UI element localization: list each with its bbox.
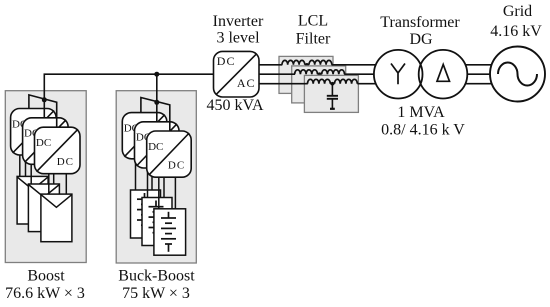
svg-text:3 level: 3 level xyxy=(216,30,260,47)
svg-text:4.16 kV: 4.16 kV xyxy=(490,23,542,40)
inductor L3a xyxy=(308,79,331,83)
svg-text:Boost: Boost xyxy=(27,268,65,285)
PV panel PV2 xyxy=(28,184,59,232)
PV panel PV1 xyxy=(17,176,48,224)
transformer primary winding (wye) xyxy=(374,50,423,99)
dc-dc boost converter 3 xyxy=(35,127,81,174)
dc-dc buck-boost converter 1 xyxy=(122,113,167,159)
wire buck converter1 to B1 xyxy=(136,157,153,190)
inverter U1 3-level xyxy=(214,51,260,97)
wire transformer to grid (3 lines) xyxy=(466,65,493,84)
buck fan wires to DC bus xyxy=(141,98,170,132)
svg-text:DC: DC xyxy=(148,141,163,153)
inductor L2a xyxy=(295,70,318,74)
wire phase B inverter to filter xyxy=(259,73,295,75)
dc-dc buck-boost converter 2 xyxy=(135,122,180,168)
boost fan wires to DC bus xyxy=(29,95,57,128)
grid source xyxy=(490,47,545,102)
inductor L1b xyxy=(309,60,332,64)
svg-text:DC: DC xyxy=(217,54,236,68)
node junction xyxy=(330,83,334,85)
LCL filter box 2 xyxy=(292,66,346,103)
svg-text:1 MVA: 1 MVA xyxy=(397,104,445,121)
svg-text:450 kVA: 450 kVA xyxy=(206,97,263,114)
inductor L3b xyxy=(335,79,358,83)
wire buck converter3 to B3 xyxy=(159,176,176,209)
Boost group container xyxy=(5,91,86,263)
wire boost converter2 to PV2 xyxy=(31,162,54,184)
wire phase A filter to transformer xyxy=(332,64,377,66)
svg-text:DC: DC xyxy=(57,156,74,168)
svg-text:AC: AC xyxy=(237,76,256,90)
svg-text:Inverter: Inverter xyxy=(213,13,264,30)
svg-text:Buck-Boost: Buck-Boost xyxy=(118,268,195,285)
svg-text:Filter: Filter xyxy=(296,31,331,48)
wire phase B filter to transformer xyxy=(344,73,374,75)
node and capacitor C2 (hidden behind box3) xyxy=(318,73,322,75)
transformer secondary winding (delta) xyxy=(419,50,468,99)
inductor L2b xyxy=(322,70,345,74)
wire DC bus with left corner drop xyxy=(44,74,213,118)
svg-text:76.6 kW × 3: 76.6 kW × 3 xyxy=(5,285,85,302)
svg-text:DC: DC xyxy=(36,137,51,149)
wire phase A inverter to filter xyxy=(259,64,282,66)
wire boost converter3 to PV3 xyxy=(49,173,67,194)
svg-text:DG: DG xyxy=(409,31,433,48)
svg-text:75 kW × 3: 75 kW × 3 xyxy=(122,285,190,302)
LCL filter box 3 xyxy=(304,75,358,112)
dc-dc buck-boost converter 3 xyxy=(147,131,192,177)
wire buck converter2 to B2 xyxy=(148,167,165,198)
wire phase C inverter to filter xyxy=(259,83,308,85)
wire bus branch to buck group xyxy=(156,74,158,122)
capacitor C3 xyxy=(331,84,333,95)
svg-text:Transformer: Transformer xyxy=(380,14,460,31)
LCL filter box 1 xyxy=(279,56,333,93)
dc-dc boost converter 1 xyxy=(11,109,57,156)
PV panel PV3 xyxy=(41,194,72,242)
node and capacitor C1 (hidden behind box2) xyxy=(305,64,309,66)
battery B3 xyxy=(154,209,186,255)
junction bus branch xyxy=(154,72,159,77)
wire boost converter1 to PV1 xyxy=(20,152,26,176)
inductor L1a xyxy=(282,60,305,64)
Buck-Boost group container xyxy=(116,91,196,263)
battery B2 xyxy=(142,198,172,246)
wire phase C filter to transformer xyxy=(357,83,376,85)
battery B1 xyxy=(131,190,161,238)
junction buck fan xyxy=(154,100,159,105)
dc-dc boost converter 2 xyxy=(23,118,69,165)
junction boost fan xyxy=(42,97,47,102)
svg-text:Grid: Grid xyxy=(503,3,532,20)
svg-text:0.8/ 4.16 k V: 0.8/ 4.16 k V xyxy=(381,122,465,139)
svg-text:LCL: LCL xyxy=(298,13,328,30)
svg-text:DC: DC xyxy=(168,160,185,172)
